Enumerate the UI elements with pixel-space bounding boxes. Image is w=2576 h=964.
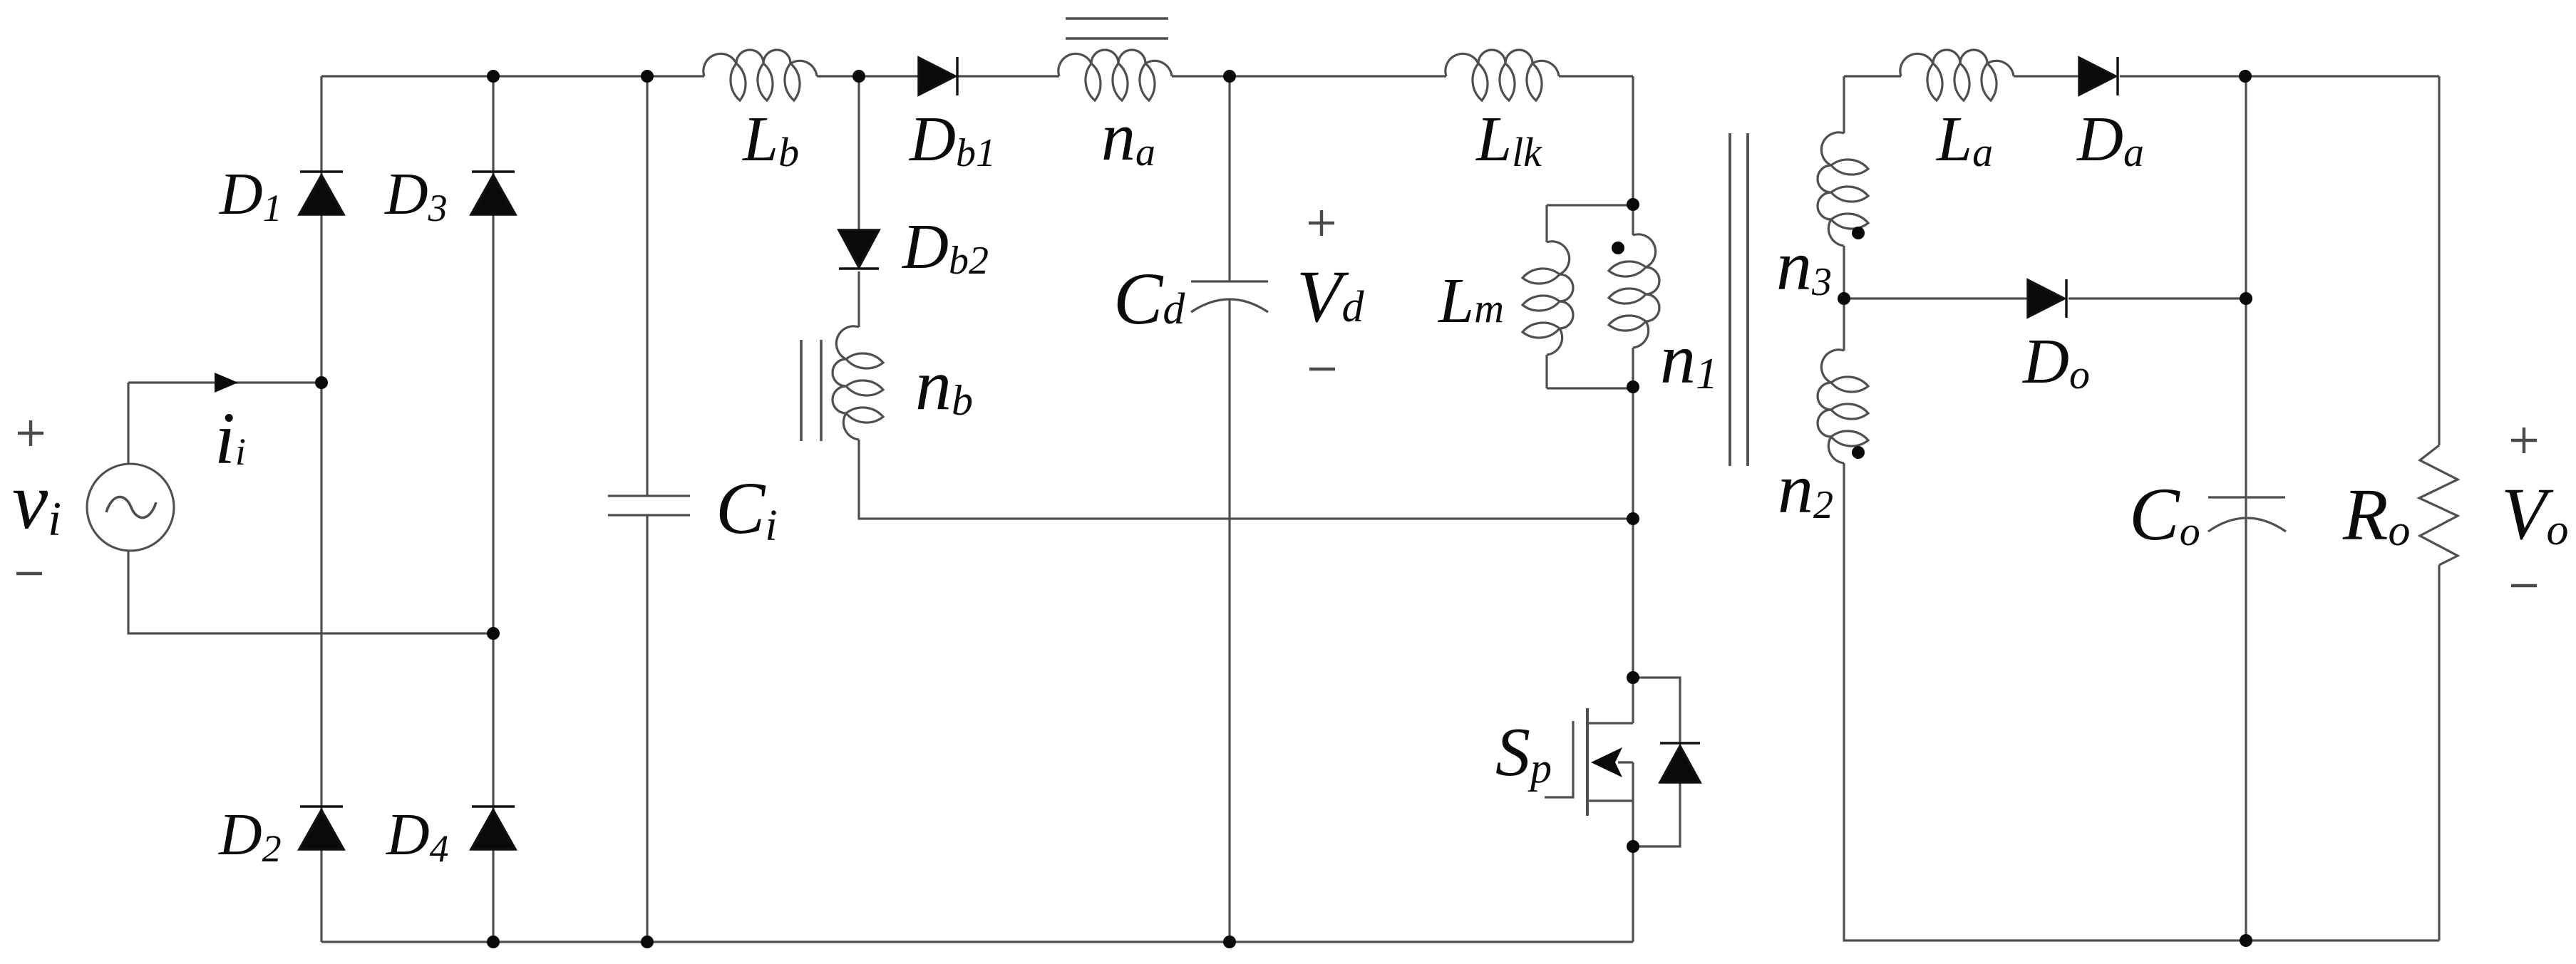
svg-text:D3: D3 (384, 161, 448, 229)
svg-text:Lm: Lm (1437, 266, 1504, 336)
svg-text:Llk: Llk (1475, 104, 1542, 175)
svg-text:Cd: Cd (1113, 258, 1185, 340)
svg-text:Vo: Vo (2501, 473, 2569, 555)
svg-text:Ci: Ci (716, 467, 778, 550)
svg-text:n1: n1 (1660, 319, 1718, 398)
svg-text:Co: Co (2129, 472, 2200, 556)
svg-text:n2: n2 (1778, 449, 1833, 528)
svg-text:vi: vi (12, 457, 61, 546)
svg-text:La: La (1935, 104, 1993, 175)
svg-text:Db1: Db1 (908, 104, 996, 175)
svg-text:Db2: Db2 (901, 212, 989, 283)
svg-text:na: na (1101, 98, 1155, 175)
svg-text:Sp: Sp (1495, 714, 1552, 792)
svg-text:nb: nb (915, 345, 973, 425)
svg-text:n3: n3 (1776, 226, 1832, 305)
svg-text:Ro: Ro (2342, 474, 2411, 556)
svg-text:Do: Do (2021, 326, 2090, 398)
svg-text:Lb: Lb (741, 104, 799, 175)
svg-text:D2: D2 (218, 802, 282, 870)
svg-text:Vd: Vd (1297, 256, 1365, 338)
svg-text:D4: D4 (386, 802, 449, 870)
svg-text:ii: ii (215, 398, 246, 480)
svg-text:Da: Da (2076, 104, 2144, 175)
svg-text:D1: D1 (219, 161, 282, 229)
